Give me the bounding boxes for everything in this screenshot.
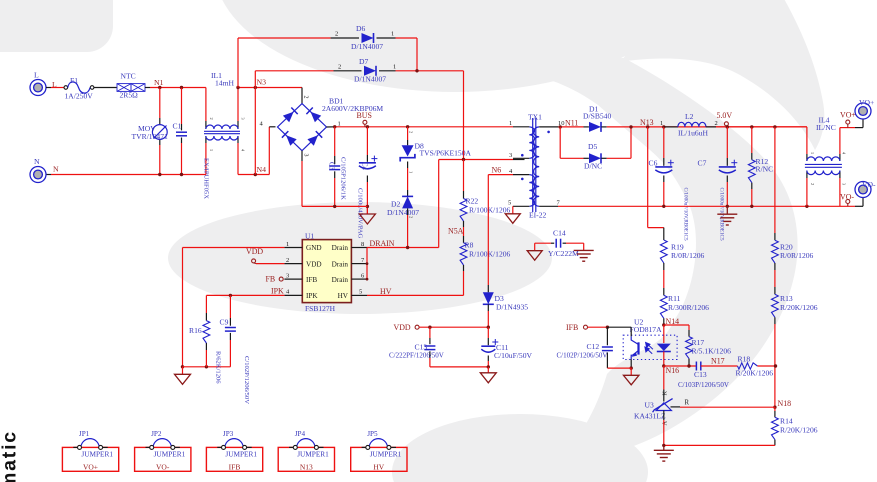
svg-text:JUMPER1: JUMPER1	[297, 450, 329, 459]
svg-text:1: 1	[393, 63, 396, 70]
wire D8 to D2	[407, 162, 409, 169]
wire VO- out	[855, 205, 863, 207]
svg-text:IPK: IPK	[271, 287, 284, 296]
wire 5V to R20	[774, 127, 776, 206]
junction N4	[254, 173, 257, 176]
wire bridge pin4 riser	[268, 127, 270, 175]
capacitor C3	[329, 165, 340, 167]
svg-text:R/20K/1206: R/20K/1206	[736, 368, 774, 377]
svg-text:R11: R11	[668, 294, 681, 303]
svg-text:C7: C7	[698, 159, 707, 168]
wire D5 out	[601, 157, 606, 159]
svg-text:D/SB540: D/SB540	[583, 112, 611, 121]
svg-text:F1: F1	[70, 76, 78, 85]
TVS diode D8	[402, 145, 414, 156]
ground earth KA431	[663, 445, 665, 450]
svg-text:NTC: NTC	[121, 71, 136, 80]
wire C14 left	[535, 242, 551, 244]
svg-text:C/102P/1206/50V: C/102P/1206/50V	[557, 351, 608, 359]
svg-text:R/NC: R/NC	[756, 164, 774, 173]
wire R14 to gnd rail	[774, 440, 776, 446]
wire R8 to HV	[463, 265, 465, 271]
wire R19-R11	[663, 263, 665, 270]
junction N18	[773, 406, 776, 409]
junction R18 node	[774, 364, 777, 367]
inductor L2	[664, 126, 678, 128]
wire D2 to DRAIN	[407, 208, 409, 215]
svg-text:C6: C6	[649, 159, 658, 168]
wire IPK	[206, 294, 284, 296]
junction N1-MOV	[158, 86, 161, 89]
svg-text:2R5Ω: 2R5Ω	[120, 91, 139, 100]
power port BUS	[363, 120, 367, 124]
connector VO-	[855, 182, 871, 198]
junction N-C1	[180, 173, 183, 176]
svg-text:2: 2	[409, 216, 414, 218]
junction N3	[254, 86, 257, 89]
svg-text:C/102P/1206/50V: C/102P/1206/50V	[243, 356, 250, 404]
junction C3 bottom	[333, 205, 336, 208]
wire D6D7 drop	[463, 71, 465, 160]
bridge diode bottom-right	[307, 135, 318, 146]
power port FB at U1	[279, 277, 283, 281]
capacitor C13	[424, 345, 435, 347]
svg-text:FB: FB	[266, 275, 276, 284]
svg-text:IFB: IFB	[229, 462, 241, 471]
connector J-N	[30, 167, 46, 183]
junction DRAIN-D2	[406, 246, 409, 249]
wire D6 out	[377, 37, 396, 39]
ground triangle C11	[487, 367, 489, 373]
svg-text:2: 2	[335, 31, 338, 38]
svg-text:D5: D5	[588, 142, 597, 151]
svg-text:U1: U1	[305, 231, 314, 240]
capacitor C11 leads	[487, 327, 489, 338]
ground earth C7	[726, 206, 728, 214]
junction fb gnd	[662, 444, 665, 447]
svg-text:R/5.1K/1206: R/5.1K/1206	[692, 346, 732, 355]
wire primary negative rail	[301, 161, 303, 206]
svg-text:C/1000uF/10V,RB0E1C5: C/1000uF/10V,RB0E1C5	[683, 188, 689, 241]
wire R20-R13	[774, 263, 776, 270]
wire N14 to R17	[664, 324, 689, 326]
junction N13 sense	[646, 125, 649, 128]
opto U2 LED cathode wire	[663, 352, 665, 367]
TX1 phase dots	[521, 154, 524, 157]
svg-text:EX/IPUHF05X: EX/IPUHF05X	[203, 158, 210, 199]
choke IL4 windings	[807, 157, 840, 161]
svg-text:2A600V/2KBP06M: 2A600V/2KBP06M	[322, 104, 383, 113]
svg-text:L: L	[34, 71, 39, 80]
bridge rectifier BD1	[278, 104, 327, 151]
junction 5V-C7	[726, 125, 729, 128]
capacitor C13 feedback	[695, 362, 697, 371]
junction BUS-C4	[366, 125, 369, 128]
svg-text:D/1N4007: D/1N4007	[351, 42, 383, 51]
wire R17 to N16	[688, 359, 690, 366]
diode D5	[589, 153, 601, 163]
resistor R12	[748, 160, 755, 183]
svg-text:IPK: IPK	[306, 292, 318, 300]
junction gnd-IL4	[805, 205, 808, 208]
ground triangle C14	[527, 251, 542, 261]
svg-text:GND: GND	[306, 244, 322, 252]
svg-text:JP2: JP2	[151, 430, 162, 438]
svg-text:R16: R16	[189, 326, 202, 335]
junction choke-N3	[236, 86, 239, 89]
regulator U3 KA431	[656, 403, 671, 411]
junction D6-D7	[415, 69, 418, 72]
svg-text:TVR/10471: TVR/10471	[132, 132, 168, 141]
svg-text:matic: matic	[0, 430, 20, 482]
svg-text:VDD: VDD	[306, 260, 322, 268]
bridge diode bottom-left	[286, 135, 297, 146]
svg-text:N16: N16	[666, 366, 680, 375]
junction 5V-R12	[750, 125, 753, 128]
junction C11 gnd	[487, 365, 490, 368]
junction IPK-C9	[229, 294, 232, 297]
TX1 pin stubs	[513, 126, 529, 128]
wire KA431 cathode	[663, 366, 665, 390]
svg-text:TVS/P6KE150A: TVS/P6KE150A	[420, 149, 472, 158]
wire to D6	[237, 38, 239, 88]
capacitor C11	[481, 345, 495, 347]
capacitor C9	[225, 327, 236, 329]
transformer TX1 primary winding 1-3	[529, 127, 534, 158]
svg-text:2: 2	[303, 96, 309, 99]
svg-text:VO+: VO+	[83, 462, 98, 471]
wire L to fuse	[51, 87, 64, 89]
svg-text:2: 2	[286, 257, 289, 264]
bridge diode top-left	[283, 112, 294, 123]
svg-text:TX1: TX1	[528, 113, 542, 122]
choke L1 windings	[206, 125, 238, 129]
svg-text:Drain: Drain	[332, 276, 349, 284]
wire bridge pin2 stub	[301, 88, 303, 104]
capacitor C9 leads	[229, 295, 231, 318]
svg-text:D6: D6	[356, 24, 365, 33]
junction BUS-C3	[333, 125, 336, 128]
svg-text:JUMPER1: JUMPER1	[370, 450, 402, 459]
svg-text:4: 4	[241, 149, 246, 152]
svg-text:JP3: JP3	[223, 430, 234, 438]
wire KA431 ref	[671, 406, 681, 408]
wire fb gnd rail	[664, 444, 775, 446]
resistor R17	[686, 337, 693, 359]
wire bridge pin1 stub	[327, 126, 335, 128]
jumper JP3	[206, 447, 262, 471]
wire N6	[488, 174, 513, 176]
junction GND rail	[181, 365, 184, 368]
svg-text:IFB: IFB	[306, 276, 317, 284]
svg-text:1: 1	[286, 241, 289, 248]
svg-text:1: 1	[660, 120, 663, 127]
svg-text:A: A	[662, 421, 669, 426]
svg-text:R20: R20	[780, 242, 793, 251]
svg-text:KA431LZ: KA431LZ	[634, 412, 666, 421]
svg-text:R/62K/1206: R/62K/1206	[215, 351, 222, 384]
wire opto LED anode	[663, 325, 665, 343]
wire N rail	[46, 174, 51, 176]
U1 pin stubs left	[284, 247, 302, 249]
svg-text:N18: N18	[778, 399, 792, 408]
svg-text:N1: N1	[154, 78, 164, 87]
svg-text:D/1N4935: D/1N4935	[496, 303, 528, 312]
junction gnd-C7	[726, 205, 729, 208]
svg-text:JUMPER1: JUMPER1	[154, 450, 186, 459]
resistor R11	[660, 295, 667, 318]
wire to D7	[255, 70, 333, 72]
jumper JP2	[135, 447, 191, 471]
wire D1 out	[601, 126, 606, 128]
resistor R13	[772, 294, 779, 317]
capacitor C6 leads	[663, 127, 665, 158]
svg-text:N4: N4	[257, 165, 267, 174]
connector J-L	[30, 80, 46, 96]
wire R22-R8	[463, 221, 465, 227]
capacitor C1 leads	[181, 88, 183, 125]
wire KA431 anode	[663, 411, 665, 421]
svg-text:FSB127H: FSB127H	[305, 304, 336, 313]
capacitor C7	[719, 166, 736, 168]
junction VDD-D3	[487, 326, 490, 329]
junction D5 out	[629, 125, 632, 128]
junction D5 in	[559, 125, 562, 128]
svg-text:JUMPER1: JUMPER1	[225, 450, 257, 459]
resistor R8	[460, 243, 467, 265]
svg-text:2: 2	[209, 118, 214, 120]
opto U2 LED	[657, 344, 671, 351]
wire TX pin5 to ground	[512, 205, 514, 207]
svg-text:R/20K/1206: R/20K/1206	[780, 303, 818, 312]
svg-text:N6: N6	[492, 165, 502, 174]
svg-text:K: K	[662, 391, 669, 396]
junction N16	[662, 364, 665, 367]
svg-text:5: 5	[359, 289, 362, 296]
resistor R16 leads	[205, 295, 207, 313]
svg-text:C9: C9	[220, 318, 229, 327]
svg-text:R: R	[685, 400, 690, 407]
wire VDD to pin2	[256, 263, 284, 265]
diode D1	[589, 122, 601, 132]
diode D2	[402, 196, 413, 208]
wire D7 out	[379, 70, 396, 72]
junction N14	[662, 323, 665, 326]
power port VO+	[846, 120, 850, 124]
capacitor C6	[655, 166, 672, 168]
svg-text:R/0R/1206: R/0R/1206	[780, 251, 814, 260]
resistor R12 leads	[751, 127, 753, 153]
svg-text:R18: R18	[738, 355, 751, 364]
svg-text:8: 8	[361, 241, 364, 248]
varistor MOV leads	[159, 88, 161, 119]
power port VDD2	[415, 325, 419, 329]
jumper JP4	[278, 447, 334, 471]
svg-text:4: 4	[842, 152, 847, 155]
svg-text:EI-22: EI-22	[529, 211, 546, 220]
svg-text:IL/1u6uH: IL/1u6uH	[678, 128, 708, 137]
junction VDD-C13	[428, 326, 431, 329]
capacitor C14	[555, 239, 557, 248]
svg-text:JP4: JP4	[295, 430, 306, 438]
wire N6 vertical to D3	[487, 175, 489, 285]
wire HV	[367, 294, 464, 296]
svg-text:1: 1	[509, 120, 512, 127]
capacitor C3 leads	[334, 127, 336, 156]
svg-text:IFB: IFB	[566, 323, 578, 332]
svg-text:3: 3	[509, 152, 512, 159]
svg-text:2: 2	[715, 120, 718, 127]
junction gnd-C6	[662, 205, 665, 208]
jumper JP1	[62, 447, 118, 471]
svg-text:C4: C4	[361, 162, 368, 171]
power port VO-	[846, 200, 850, 204]
svg-text:R/20K/1206: R/20K/1206	[780, 425, 818, 434]
diode D3	[483, 292, 494, 304]
svg-text:HV: HV	[338, 292, 349, 300]
svg-text:2: 2	[409, 131, 414, 133]
svg-text:N: N	[34, 157, 40, 166]
svg-text:JP1: JP1	[79, 430, 90, 438]
svg-text:1: 1	[409, 171, 414, 173]
wire R18 out	[757, 365, 775, 367]
svg-text:VO+: VO+	[859, 98, 874, 107]
capacitor C12	[602, 346, 613, 348]
svg-text:L2: L2	[685, 112, 694, 121]
resistor R22	[460, 199, 467, 222]
svg-text:1: 1	[209, 149, 214, 151]
svg-text:VO-: VO-	[840, 192, 854, 201]
wire IFB	[584, 325, 588, 329]
wire N17	[701, 365, 738, 367]
wire BUS rail	[335, 126, 513, 128]
svg-text:C14: C14	[553, 229, 566, 238]
wire L stub	[46, 87, 51, 89]
svg-text:R8: R8	[465, 240, 474, 249]
svg-text:VO+: VO+	[840, 110, 856, 119]
svg-text:VO-: VO-	[862, 180, 876, 189]
wire TX pin10 to D1	[558, 126, 583, 128]
resistor R20	[772, 240, 779, 263]
svg-text:N17: N17	[711, 356, 725, 365]
varistor MOV	[152, 125, 167, 140]
wire BUS to D8	[407, 127, 409, 140]
junction BUS-D8	[406, 125, 409, 128]
svg-text:3: 3	[286, 272, 289, 279]
diode D7	[364, 66, 376, 76]
wire TX pin3 rail	[439, 159, 513, 161]
ground triangle TX pin5	[505, 214, 520, 224]
capacitor C1	[176, 131, 187, 133]
resistor R16	[203, 321, 210, 343]
svg-text:14mH: 14mH	[215, 78, 235, 87]
wire VDD rail	[419, 326, 488, 328]
wire opto emitter gnd	[630, 359, 632, 368]
svg-text:7: 7	[557, 200, 561, 207]
junction IFB-C12	[606, 326, 609, 329]
transformer TX1 core	[532, 118, 534, 212]
svg-text:JP5: JP5	[367, 430, 378, 438]
svg-text:C/10uF/50V: C/10uF/50V	[494, 351, 532, 360]
opto U2 arrows	[645, 342, 653, 353]
wire VO+ out	[840, 127, 855, 129]
svg-text:N: N	[53, 165, 59, 174]
svg-text:R/0R/1206: R/0R/1206	[671, 251, 705, 260]
choke L1 pins	[205, 88, 207, 122]
svg-text:R13: R13	[780, 294, 793, 303]
wire DRAIN rail	[367, 247, 439, 249]
capacitor C12 leads	[606, 327, 608, 345]
opto U2 box	[623, 335, 677, 359]
svg-text:C/100u/420V/PAG: C/100u/420V/PAG	[357, 188, 364, 239]
wire C14 right	[563, 242, 566, 244]
svg-text:2: 2	[810, 183, 815, 185]
capacitor C7 leads	[726, 127, 728, 158]
wire D3 to VDD rail	[487, 304, 489, 311]
wire N4 rail	[238, 174, 269, 176]
svg-text:VDD: VDD	[394, 323, 411, 332]
svg-text:5.0V: 5.0V	[717, 111, 733, 120]
thermistor NTC	[117, 84, 145, 92]
capacitor C13 leads	[429, 327, 431, 338]
connector VO+	[855, 103, 871, 119]
wire N13 sense drop	[647, 127, 649, 228]
svg-text:R/300R/1206: R/300R/1206	[668, 303, 709, 312]
junction pin3-R22	[462, 158, 465, 161]
svg-text:1A/250V: 1A/250V	[65, 92, 94, 101]
svg-text:VDD: VDD	[246, 247, 263, 256]
jumper JP5	[351, 447, 407, 471]
power port 5.0V	[724, 122, 728, 126]
svg-text:C3: C3	[328, 162, 335, 171]
junction N-MOV	[158, 173, 161, 176]
ground triangle C4	[366, 206, 368, 214]
svg-text:DRAIN: DRAIN	[370, 239, 395, 248]
junction gnd-R12	[750, 205, 753, 208]
svg-text:BUS: BUS	[357, 111, 372, 120]
wire N3 rail	[238, 87, 302, 89]
wire C14 gnd left	[534, 243, 536, 251]
wire GND bottom rail	[183, 366, 231, 368]
svg-text:R14: R14	[780, 416, 793, 425]
svg-text:3: 3	[241, 118, 246, 120]
resistor R18	[738, 363, 758, 369]
wire R13 down	[774, 317, 776, 324]
ground earth C14	[574, 249, 594, 251]
wire NTC to N1 rail	[145, 87, 150, 89]
wire secondary gnd rail	[558, 205, 855, 207]
wire DRAIN riser	[438, 160, 440, 248]
ground triangle opto	[630, 368, 632, 375]
svg-text:N13: N13	[300, 462, 313, 471]
svg-text:C1: C1	[173, 122, 182, 131]
wire drain bus vertical	[366, 248, 368, 280]
svg-text:C/103P/1206/50V: C/103P/1206/50V	[678, 381, 729, 389]
svg-text:R/100K/1206: R/100K/1206	[469, 206, 511, 215]
transformer TX1 secondary winding	[534, 127, 540, 206]
svg-text:HV: HV	[373, 462, 384, 471]
svg-text:5: 5	[508, 200, 511, 207]
wire D5 branch	[559, 127, 561, 158]
opto U2 transistor	[637, 342, 639, 354]
svg-text:1: 1	[810, 152, 815, 154]
junction R16 bottom	[205, 365, 208, 368]
capacitor C4	[359, 162, 376, 164]
wire L2 out rail	[716, 126, 807, 128]
junction N1-C1	[180, 86, 183, 89]
svg-text:N5A: N5A	[448, 226, 464, 235]
svg-text:C13: C13	[694, 370, 707, 379]
